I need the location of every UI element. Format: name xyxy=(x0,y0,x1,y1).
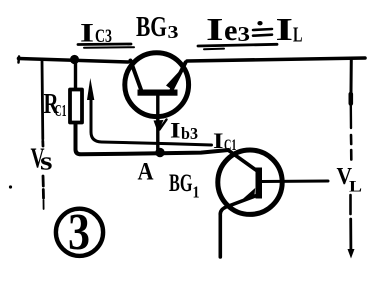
svg-text:I: I xyxy=(276,11,294,47)
wire RC1 bottom lead and lower horizontal wire to BG1 collector xyxy=(76,124,229,154)
label BG1 xyxy=(169,170,200,202)
svg-text:A: A xyxy=(138,159,154,186)
label IC1 xyxy=(213,128,237,154)
svg-text:C1: C1 xyxy=(55,101,67,120)
label BG3 xyxy=(136,11,179,43)
speck xyxy=(9,185,12,188)
wire RC1 top lead xyxy=(74,60,77,89)
figure number circled 3 xyxy=(56,204,103,261)
label IC3 with underline xyxy=(80,19,112,48)
svg-text:1: 1 xyxy=(193,183,200,202)
node A junction dot xyxy=(155,148,164,157)
svg-text:BG: BG xyxy=(136,11,167,43)
label Ib3 xyxy=(170,118,198,143)
resistor RC1 xyxy=(70,90,82,123)
label VL xyxy=(337,164,363,196)
svg-text:BG: BG xyxy=(169,170,193,197)
wire top rail right segment xyxy=(187,58,365,61)
svg-text:L: L xyxy=(293,23,303,47)
label Ie3 = IL with underline xyxy=(206,11,303,47)
transistor BG1 xyxy=(218,150,328,257)
wire curved annotation arrow (base current path) xyxy=(87,78,212,145)
svg-text:b3: b3 xyxy=(181,124,198,143)
svg-text:e: e xyxy=(224,14,238,47)
svg-text:3: 3 xyxy=(238,22,251,46)
svg-text:L: L xyxy=(349,179,362,196)
power rail VS (left, dashed) xyxy=(42,60,44,209)
wire top rail left segment xyxy=(19,57,129,63)
svg-text:3: 3 xyxy=(68,204,90,261)
svg-text:s: s xyxy=(40,147,53,176)
arrowhead Ib3 on BG3 base lead xyxy=(154,120,167,133)
svg-text:3: 3 xyxy=(168,22,179,42)
label VS xyxy=(31,143,53,176)
label RC1 xyxy=(44,88,67,120)
svg-text:I: I xyxy=(206,11,224,47)
node junction dot at RC1 top xyxy=(70,55,79,64)
transistor BG3 xyxy=(125,53,189,149)
svg-text:I: I xyxy=(213,128,224,153)
power rail VL (right, dashed with bottom arrowhead) xyxy=(348,59,355,259)
svg-text:I: I xyxy=(170,118,181,143)
